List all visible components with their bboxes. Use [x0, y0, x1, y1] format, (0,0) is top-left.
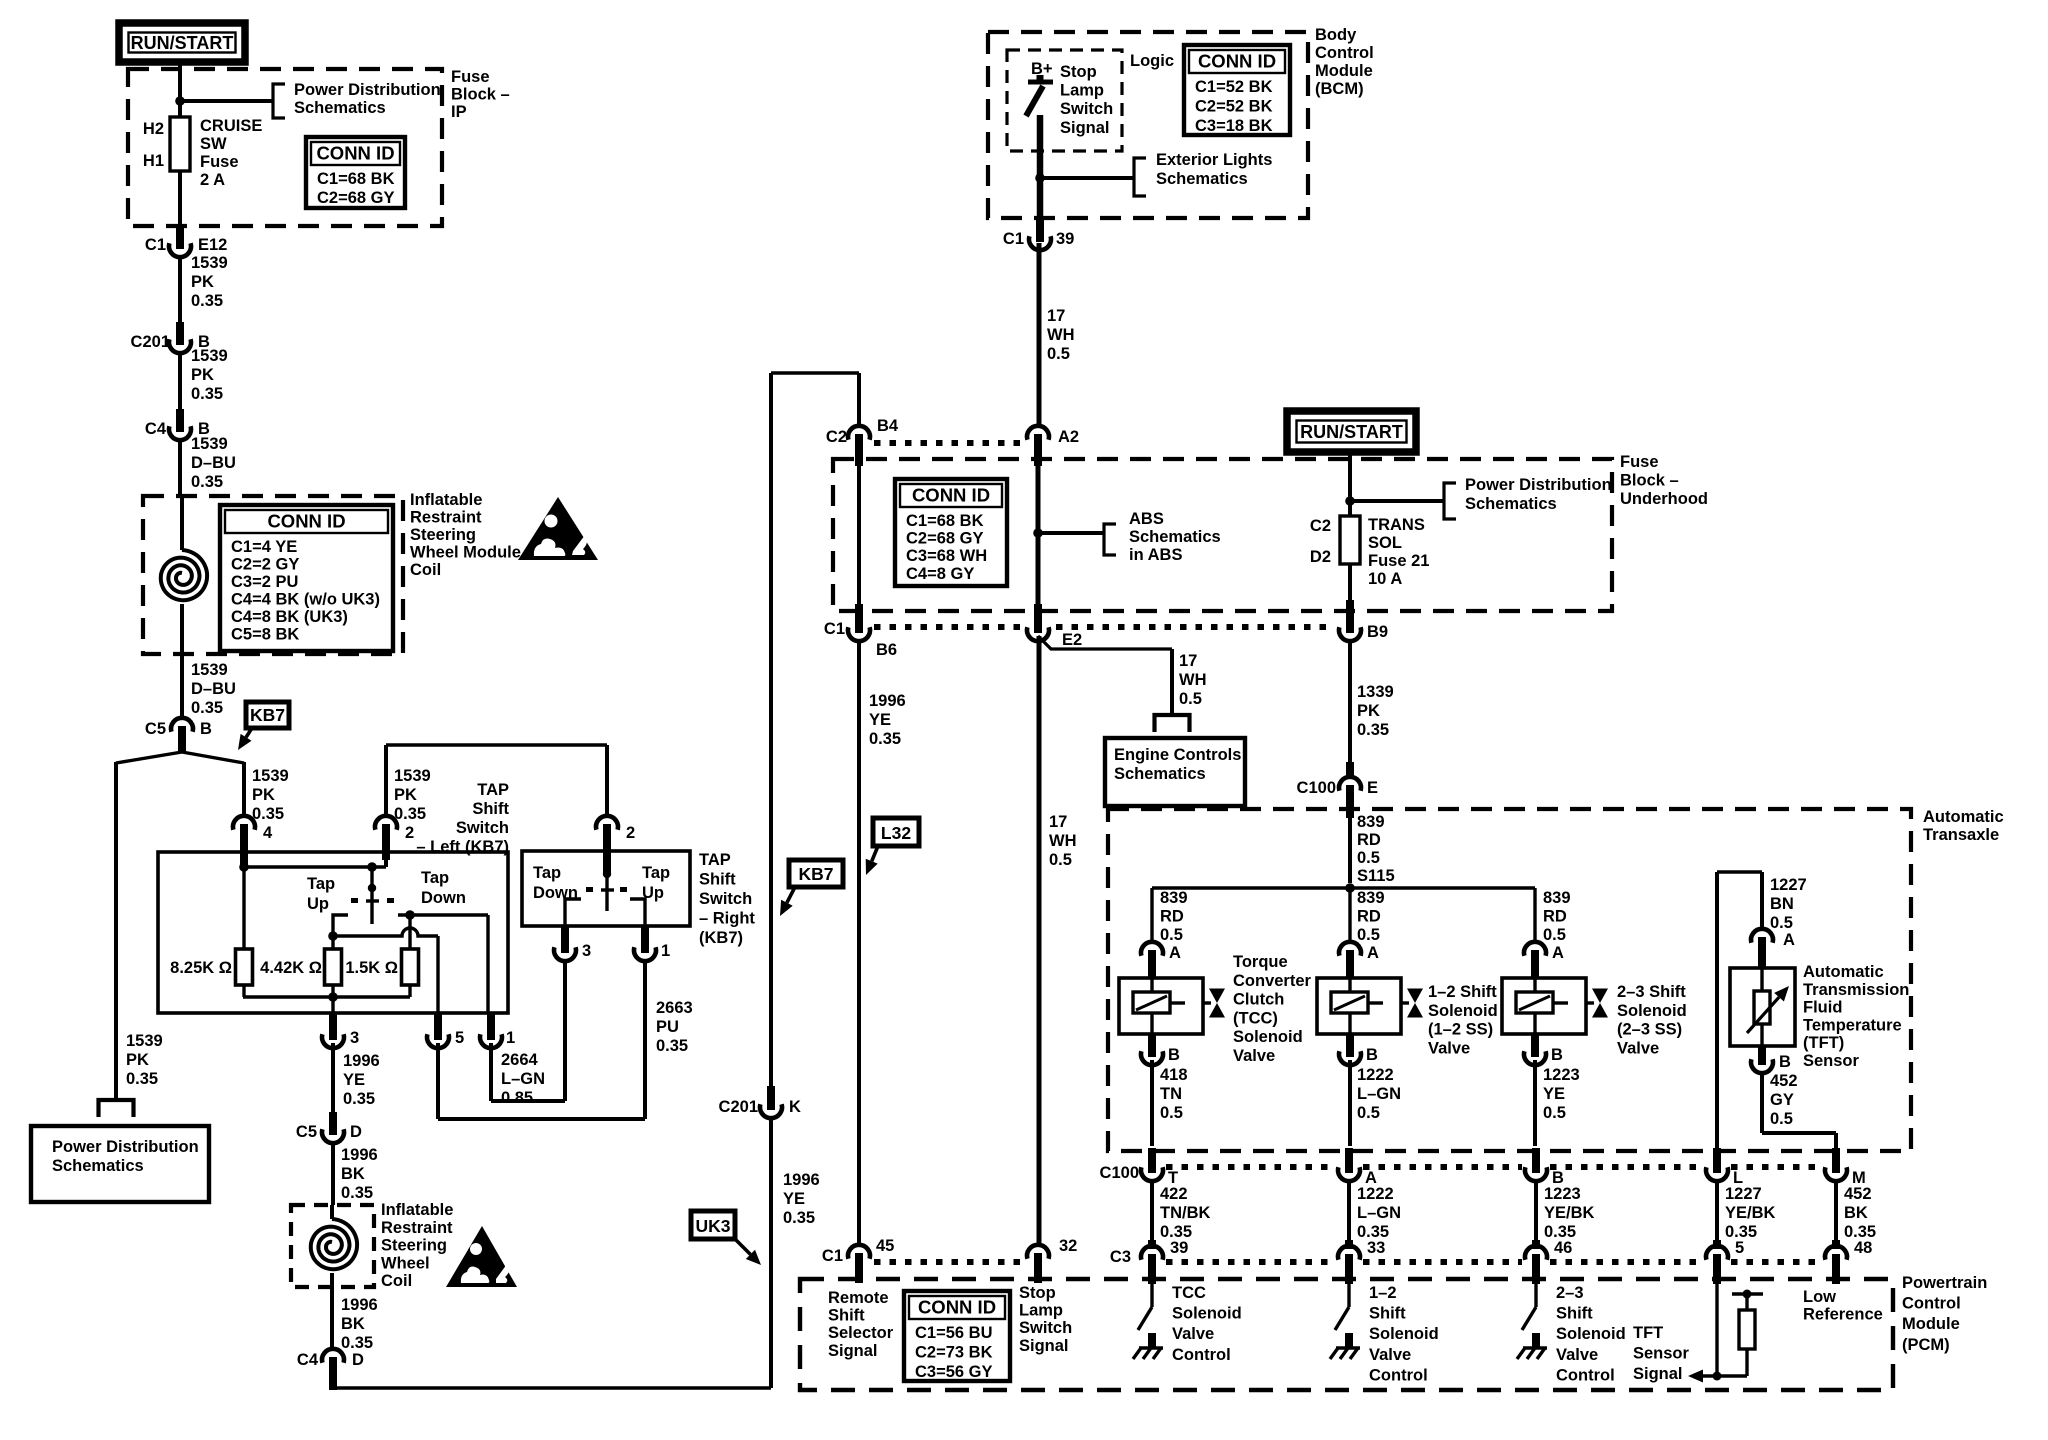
- svg-text:C3=68 WH: C3=68 WH: [906, 547, 987, 565]
- svg-text:C2=52 BK: C2=52 BK: [1195, 98, 1273, 116]
- svg-text:C1: C1: [824, 620, 845, 638]
- svg-text:1223: 1223: [1543, 1066, 1580, 1084]
- svg-text:Tap: Tap: [307, 875, 335, 893]
- svg-text:0.35: 0.35: [1544, 1223, 1576, 1241]
- svg-text:17: 17: [1179, 652, 1197, 670]
- svg-text:3: 3: [582, 942, 591, 960]
- svg-text:8.25K Ω: 8.25K Ω: [170, 959, 232, 977]
- svg-text:BK: BK: [341, 1165, 365, 1183]
- svg-text:1996: 1996: [343, 1052, 380, 1070]
- svg-text:0.35: 0.35: [341, 1334, 373, 1352]
- svg-text:C100: C100: [1297, 779, 1336, 797]
- svg-text:0.35: 0.35: [1160, 1223, 1192, 1241]
- svg-text:Solenoid: Solenoid: [1233, 1028, 1303, 1046]
- svg-text:TFT: TFT: [1633, 1324, 1663, 1342]
- svg-text:839: 839: [1543, 889, 1571, 907]
- svg-text:0.5: 0.5: [1357, 926, 1380, 944]
- svg-text:RUN/START: RUN/START: [131, 33, 234, 53]
- svg-text:Control: Control: [1369, 1366, 1428, 1384]
- svg-text:0.35: 0.35: [1725, 1223, 1757, 1241]
- svg-text:(KB7): (KB7): [699, 929, 743, 947]
- svg-text:Schematics: Schematics: [1129, 528, 1221, 546]
- svg-text:1996: 1996: [783, 1171, 820, 1189]
- svg-text:Valve: Valve: [1617, 1039, 1659, 1057]
- svg-text:TAP: TAP: [477, 781, 509, 799]
- svg-text:Block –: Block –: [451, 86, 510, 104]
- svg-text:Transaxle: Transaxle: [1923, 826, 1999, 844]
- svg-text:1–2: 1–2: [1369, 1284, 1397, 1302]
- svg-text:Valve: Valve: [1369, 1346, 1411, 1364]
- svg-text:Shift: Shift: [472, 800, 509, 818]
- svg-text:Solenoid: Solenoid: [1369, 1325, 1439, 1343]
- svg-text:Up: Up: [307, 895, 329, 913]
- svg-text:2–3: 2–3: [1556, 1284, 1584, 1302]
- svg-text:2663: 2663: [656, 999, 693, 1017]
- svg-text:Shift: Shift: [1556, 1305, 1593, 1323]
- svg-text:Schematics: Schematics: [1156, 170, 1248, 188]
- svg-text:0.5: 0.5: [1160, 1104, 1183, 1122]
- svg-text:E2: E2: [1062, 631, 1082, 649]
- svg-text:Stop: Stop: [1019, 1284, 1056, 1302]
- svg-text:Block –: Block –: [1620, 471, 1679, 489]
- svg-text:2: 2: [405, 824, 414, 842]
- svg-text:Fuse 21: Fuse 21: [1368, 552, 1429, 570]
- svg-text:Shift: Shift: [1369, 1305, 1406, 1323]
- svg-text:TCC: TCC: [1172, 1284, 1206, 1302]
- svg-text:2: 2: [626, 824, 635, 842]
- svg-text:PK: PK: [191, 366, 214, 384]
- svg-text:Sensor: Sensor: [1633, 1345, 1690, 1363]
- svg-text:(1–2 SS): (1–2 SS): [1428, 1021, 1493, 1039]
- svg-text:2664: 2664: [501, 1051, 539, 1069]
- svg-text:1539: 1539: [191, 435, 228, 453]
- svg-text:C5: C5: [296, 1123, 317, 1141]
- svg-text:D–BU: D–BU: [191, 454, 236, 472]
- svg-text:Control: Control: [1902, 1295, 1961, 1313]
- svg-text:Control: Control: [1556, 1366, 1615, 1384]
- svg-text:Underhood: Underhood: [1620, 490, 1708, 508]
- svg-text:0.5: 0.5: [1770, 914, 1793, 932]
- svg-text:1.5K Ω: 1.5K Ω: [345, 959, 398, 977]
- svg-text:KB7: KB7: [250, 705, 285, 725]
- svg-text:B9: B9: [1367, 623, 1388, 641]
- svg-text:C1=68 BK: C1=68 BK: [906, 512, 984, 530]
- svg-text:WH: WH: [1049, 832, 1077, 850]
- svg-text:RD: RD: [1160, 908, 1184, 926]
- svg-text:SOL: SOL: [1368, 534, 1402, 552]
- svg-text:TN: TN: [1160, 1085, 1182, 1103]
- svg-text:in ABS: in ABS: [1129, 546, 1182, 564]
- svg-text:– Right: – Right: [699, 910, 755, 928]
- svg-text:B: B: [200, 720, 212, 738]
- svg-text:Tap: Tap: [642, 864, 670, 882]
- svg-text:A: A: [1169, 944, 1181, 962]
- svg-text:3: 3: [350, 1029, 359, 1047]
- svg-text:B: B: [1551, 1046, 1563, 1064]
- svg-text:C3: C3: [1110, 1248, 1131, 1266]
- svg-text:(2–3 SS): (2–3 SS): [1617, 1021, 1682, 1039]
- svg-text:Signal: Signal: [828, 1342, 878, 1360]
- svg-text:Inflatable: Inflatable: [381, 1201, 453, 1219]
- svg-text:Power Distribution: Power Distribution: [52, 1138, 199, 1156]
- svg-text:0.35: 0.35: [191, 699, 223, 717]
- svg-text:C1: C1: [1003, 230, 1024, 248]
- svg-text:BN: BN: [1770, 895, 1794, 913]
- svg-text:Shift: Shift: [699, 871, 736, 889]
- svg-text:C4=8 BK (UK3): C4=8 BK (UK3): [231, 608, 348, 626]
- svg-text:ABS: ABS: [1129, 510, 1164, 528]
- svg-text:PK: PK: [394, 786, 417, 804]
- svg-text:C100: C100: [1100, 1164, 1139, 1182]
- svg-text:YE: YE: [1543, 1085, 1565, 1103]
- svg-text:Solenoid: Solenoid: [1556, 1325, 1626, 1343]
- svg-text:Temperature: Temperature: [1803, 1016, 1902, 1034]
- svg-text:Coil: Coil: [381, 1272, 412, 1290]
- svg-text:4.42K Ω: 4.42K Ω: [260, 959, 322, 977]
- svg-text:1539: 1539: [394, 767, 431, 785]
- svg-text:C1: C1: [145, 236, 166, 254]
- svg-text:33: 33: [1367, 1239, 1385, 1257]
- svg-text:C5=8 BK: C5=8 BK: [231, 626, 299, 644]
- svg-text:YE/BK: YE/BK: [1544, 1204, 1595, 1222]
- svg-text:39: 39: [1170, 1239, 1188, 1257]
- svg-text:IP: IP: [451, 103, 467, 121]
- svg-text:RUN/START: RUN/START: [1300, 422, 1403, 442]
- svg-text:BK: BK: [341, 1315, 365, 1333]
- svg-text:A: A: [1367, 944, 1379, 962]
- svg-text:Converter: Converter: [1233, 972, 1312, 990]
- svg-text:D2: D2: [1310, 548, 1331, 566]
- svg-text:CONN ID: CONN ID: [1198, 51, 1276, 72]
- svg-text:0.5: 0.5: [1543, 926, 1566, 944]
- svg-text:RD: RD: [1357, 831, 1381, 849]
- svg-text:B: B: [1168, 1046, 1180, 1064]
- svg-text:C5: C5: [145, 720, 166, 738]
- svg-text:0.5: 0.5: [1357, 849, 1380, 867]
- svg-text:1: 1: [661, 942, 670, 960]
- svg-text:Fuse: Fuse: [451, 68, 490, 86]
- svg-text:A2: A2: [1058, 428, 1079, 446]
- svg-text:PK: PK: [191, 273, 214, 291]
- svg-text:C1=52 BK: C1=52 BK: [1195, 78, 1273, 96]
- svg-text:A: A: [1552, 944, 1564, 962]
- svg-text:1996: 1996: [341, 1146, 378, 1164]
- svg-text:Inflatable: Inflatable: [410, 491, 482, 509]
- svg-text:SW: SW: [200, 135, 227, 153]
- svg-text:0.35: 0.35: [343, 1090, 375, 1108]
- svg-text:C3=2 PU: C3=2 PU: [231, 573, 298, 591]
- svg-text:K: K: [789, 1098, 801, 1116]
- svg-text:Automatic: Automatic: [1803, 963, 1884, 981]
- svg-text:B: B: [1779, 1053, 1791, 1071]
- svg-text:E: E: [1367, 779, 1378, 797]
- svg-text:1539: 1539: [252, 767, 289, 785]
- svg-text:C4: C4: [297, 1351, 319, 1369]
- svg-text:Restraint: Restraint: [410, 509, 482, 527]
- svg-text:D: D: [352, 1351, 364, 1369]
- svg-text:C3=56 GY: C3=56 GY: [915, 1363, 993, 1381]
- svg-text:1539: 1539: [126, 1032, 163, 1050]
- svg-text:Fluid: Fluid: [1803, 999, 1842, 1017]
- svg-text:Power Distribution: Power Distribution: [294, 81, 441, 99]
- svg-text:1996: 1996: [341, 1296, 378, 1314]
- svg-text:C2: C2: [1310, 517, 1331, 535]
- svg-text:C3=18 BK: C3=18 BK: [1195, 117, 1273, 135]
- svg-text:C2=73 BK: C2=73 BK: [915, 1344, 993, 1362]
- svg-text:0.5: 0.5: [1160, 926, 1183, 944]
- svg-text:Low: Low: [1803, 1288, 1836, 1306]
- svg-text:L–GN: L–GN: [1357, 1085, 1401, 1103]
- svg-text:Automatic: Automatic: [1923, 808, 2004, 826]
- svg-text:32: 32: [1059, 1237, 1077, 1255]
- svg-text:PK: PK: [1357, 702, 1380, 720]
- svg-text:10 A: 10 A: [1368, 570, 1402, 588]
- svg-text:Shift: Shift: [828, 1307, 865, 1325]
- svg-text:(PCM): (PCM): [1902, 1336, 1950, 1354]
- svg-text:C1=68 BK: C1=68 BK: [317, 170, 395, 188]
- svg-text:Wheel Module: Wheel Module: [410, 544, 521, 562]
- svg-text:0.35: 0.35: [252, 805, 284, 823]
- svg-text:PK: PK: [252, 786, 275, 804]
- svg-text:C2: C2: [826, 428, 847, 446]
- svg-text:Stop: Stop: [1060, 63, 1097, 81]
- svg-text:1227: 1227: [1725, 1185, 1762, 1203]
- svg-text:Valve: Valve: [1556, 1346, 1598, 1364]
- svg-text:Wheel: Wheel: [381, 1254, 430, 1272]
- svg-text:Schematics: Schematics: [294, 99, 386, 117]
- svg-text:0.35: 0.35: [341, 1184, 373, 1202]
- svg-text:BK: BK: [1844, 1204, 1868, 1222]
- svg-text:UK3: UK3: [695, 1216, 730, 1236]
- svg-text:Signal: Signal: [1633, 1365, 1683, 1383]
- svg-text:0.35: 0.35: [1357, 721, 1389, 739]
- svg-text:1227: 1227: [1770, 876, 1807, 894]
- svg-text:Restraint: Restraint: [381, 1219, 453, 1237]
- svg-text:L–GN: L–GN: [501, 1070, 545, 1088]
- svg-text:4: 4: [263, 824, 273, 842]
- svg-text:Remote: Remote: [828, 1289, 889, 1307]
- svg-text:1222: 1222: [1357, 1066, 1394, 1084]
- svg-text:D: D: [350, 1123, 362, 1141]
- svg-text:0.35: 0.35: [1844, 1223, 1876, 1241]
- svg-text:0.35: 0.35: [126, 1070, 158, 1088]
- svg-text:1: 1: [506, 1029, 515, 1047]
- svg-text:Tap: Tap: [533, 864, 561, 882]
- svg-text:Schematics: Schematics: [1465, 495, 1557, 513]
- svg-text:WH: WH: [1179, 671, 1207, 689]
- svg-text:5: 5: [455, 1029, 464, 1047]
- svg-text:0.5: 0.5: [1543, 1104, 1566, 1122]
- svg-text:H2: H2: [143, 120, 164, 138]
- svg-text:1539: 1539: [191, 347, 228, 365]
- svg-text:GY: GY: [1770, 1091, 1794, 1109]
- svg-text:Logic: Logic: [1130, 52, 1174, 70]
- svg-text:0.5: 0.5: [1179, 690, 1202, 708]
- svg-text:B4: B4: [877, 417, 899, 435]
- svg-text:1339: 1339: [1357, 683, 1394, 701]
- svg-text:Selector: Selector: [828, 1324, 894, 1342]
- svg-text:C1=56 BU: C1=56 BU: [915, 1324, 993, 1342]
- svg-text:H1: H1: [143, 152, 164, 170]
- svg-text:PU: PU: [656, 1018, 679, 1036]
- svg-text:CONN ID: CONN ID: [267, 511, 345, 532]
- svg-text:Switch: Switch: [699, 890, 752, 908]
- svg-text:48: 48: [1854, 1239, 1872, 1257]
- svg-text:CRUISE: CRUISE: [200, 117, 262, 135]
- svg-text:Clutch: Clutch: [1233, 991, 1284, 1009]
- svg-text:1223: 1223: [1544, 1185, 1581, 1203]
- svg-text:Switch: Switch: [456, 819, 509, 837]
- svg-text:0.35: 0.35: [394, 805, 426, 823]
- svg-text:1–2 Shift: 1–2 Shift: [1428, 983, 1497, 1001]
- svg-text:Signal: Signal: [1019, 1337, 1069, 1355]
- svg-text:Sensor: Sensor: [1803, 1052, 1860, 1070]
- svg-text:Torque: Torque: [1233, 953, 1288, 971]
- svg-text:C2=68 GY: C2=68 GY: [317, 189, 395, 207]
- svg-text:839: 839: [1357, 889, 1385, 907]
- svg-text:Fuse: Fuse: [1620, 453, 1659, 471]
- svg-text:0.5: 0.5: [1770, 1110, 1793, 1128]
- svg-text:C2=2 GY: C2=2 GY: [231, 556, 299, 574]
- svg-text:Lamp: Lamp: [1019, 1302, 1063, 1320]
- svg-text:Schematics: Schematics: [1114, 765, 1206, 783]
- svg-text:C4: C4: [145, 420, 167, 438]
- svg-text:WH: WH: [1047, 326, 1075, 344]
- svg-text:45: 45: [876, 1237, 894, 1255]
- svg-text:Body: Body: [1315, 26, 1357, 44]
- svg-text:TAP: TAP: [699, 851, 731, 869]
- svg-text:Switch: Switch: [1019, 1319, 1072, 1337]
- svg-text:C201: C201: [131, 333, 170, 351]
- svg-text:0.35: 0.35: [1357, 1223, 1389, 1241]
- svg-text:1222: 1222: [1357, 1185, 1394, 1203]
- svg-text:Valve: Valve: [1233, 1047, 1275, 1065]
- svg-text:839: 839: [1160, 889, 1188, 907]
- svg-text:L32: L32: [881, 823, 911, 843]
- svg-text:Fuse: Fuse: [200, 153, 239, 171]
- svg-text:Power Distribution: Power Distribution: [1465, 476, 1612, 494]
- svg-text:418: 418: [1160, 1066, 1188, 1084]
- svg-text:0.35: 0.35: [191, 473, 223, 491]
- svg-text:2–3 Shift: 2–3 Shift: [1617, 983, 1686, 1001]
- svg-text:C1=4 YE: C1=4 YE: [231, 538, 297, 556]
- svg-text:39: 39: [1056, 230, 1074, 248]
- svg-text:0.85: 0.85: [501, 1089, 533, 1107]
- svg-text:Exterior Lights: Exterior Lights: [1156, 151, 1272, 169]
- svg-text:Solenoid: Solenoid: [1617, 1002, 1687, 1020]
- svg-text:0.5: 0.5: [1047, 345, 1070, 363]
- svg-text:0.35: 0.35: [191, 292, 223, 310]
- svg-text:C2=68 GY: C2=68 GY: [906, 530, 984, 548]
- svg-text:422: 422: [1160, 1185, 1188, 1203]
- svg-text:YE: YE: [783, 1190, 805, 1208]
- svg-text:Module: Module: [1315, 62, 1373, 80]
- svg-text:0.5: 0.5: [1357, 1104, 1380, 1122]
- svg-text:(BCM): (BCM): [1315, 80, 1364, 98]
- svg-text:TRANS: TRANS: [1368, 516, 1425, 534]
- svg-text:YE: YE: [869, 711, 891, 729]
- svg-text:C4=4 BK (w/o UK3): C4=4 BK (w/o UK3): [231, 591, 380, 609]
- svg-text:Coil: Coil: [410, 561, 441, 579]
- svg-text:0.35: 0.35: [869, 730, 901, 748]
- svg-text:2 A: 2 A: [200, 171, 225, 189]
- svg-text:Steering: Steering: [410, 526, 476, 544]
- svg-text:Powertrain: Powertrain: [1902, 1274, 1987, 1292]
- svg-text:0.35: 0.35: [656, 1037, 688, 1055]
- svg-text:Module: Module: [1902, 1315, 1960, 1333]
- svg-text:Engine Controls: Engine Controls: [1114, 746, 1241, 764]
- svg-text:839: 839: [1357, 813, 1385, 831]
- svg-text:1539: 1539: [191, 254, 228, 272]
- svg-text:S115: S115: [1357, 867, 1395, 885]
- svg-text:Schematics: Schematics: [52, 1157, 144, 1175]
- svg-text:CONN ID: CONN ID: [918, 1297, 996, 1318]
- svg-text:CONN ID: CONN ID: [316, 143, 394, 164]
- svg-text:RD: RD: [1357, 908, 1381, 926]
- svg-text:Valve: Valve: [1172, 1325, 1214, 1343]
- svg-text:452: 452: [1770, 1072, 1798, 1090]
- svg-text:B: B: [1366, 1046, 1378, 1064]
- svg-text:A: A: [1783, 931, 1795, 949]
- svg-text:E12: E12: [198, 236, 227, 254]
- svg-text:Reference: Reference: [1803, 1306, 1883, 1324]
- svg-text:D–BU: D–BU: [191, 680, 236, 698]
- svg-text:17: 17: [1047, 307, 1065, 325]
- svg-text:C4=8 GY: C4=8 GY: [906, 565, 974, 583]
- svg-text:Control: Control: [1315, 44, 1374, 62]
- svg-text:17: 17: [1049, 813, 1067, 831]
- svg-text:Control: Control: [1172, 1346, 1231, 1364]
- svg-text:1996: 1996: [869, 692, 906, 710]
- svg-text:Valve: Valve: [1428, 1039, 1470, 1057]
- svg-text:(TCC): (TCC): [1233, 1009, 1278, 1027]
- svg-text:452: 452: [1844, 1185, 1872, 1203]
- svg-text:Down: Down: [421, 889, 466, 907]
- svg-text:Tap: Tap: [421, 869, 449, 887]
- svg-text:PK: PK: [126, 1051, 149, 1069]
- svg-text:Switch: Switch: [1060, 100, 1113, 118]
- svg-text:(TFT): (TFT): [1803, 1034, 1844, 1052]
- svg-text:0.35: 0.35: [191, 385, 223, 403]
- svg-text:C1: C1: [822, 1247, 843, 1265]
- svg-text:YE/BK: YE/BK: [1725, 1204, 1776, 1222]
- svg-text:CONN ID: CONN ID: [912, 485, 990, 506]
- svg-text:Solenoid: Solenoid: [1428, 1002, 1498, 1020]
- svg-text:KB7: KB7: [798, 864, 833, 884]
- svg-text:Transmission: Transmission: [1803, 981, 1909, 999]
- svg-text:Steering: Steering: [381, 1237, 447, 1255]
- svg-text:1539: 1539: [191, 661, 228, 679]
- svg-text:46: 46: [1554, 1239, 1572, 1257]
- svg-text:YE: YE: [343, 1071, 365, 1089]
- svg-text:0.5: 0.5: [1049, 851, 1072, 869]
- svg-text:Solenoid: Solenoid: [1172, 1305, 1242, 1323]
- svg-text:TN/BK: TN/BK: [1160, 1204, 1210, 1222]
- svg-text:RD: RD: [1543, 908, 1567, 926]
- svg-text:L–GN: L–GN: [1357, 1204, 1401, 1222]
- svg-text:B6: B6: [876, 641, 897, 659]
- svg-text:C201: C201: [719, 1098, 758, 1116]
- svg-text:Lamp: Lamp: [1060, 82, 1104, 100]
- svg-text:Signal: Signal: [1060, 119, 1110, 137]
- svg-text:0.35: 0.35: [783, 1209, 815, 1227]
- svg-text:5: 5: [1735, 1239, 1744, 1257]
